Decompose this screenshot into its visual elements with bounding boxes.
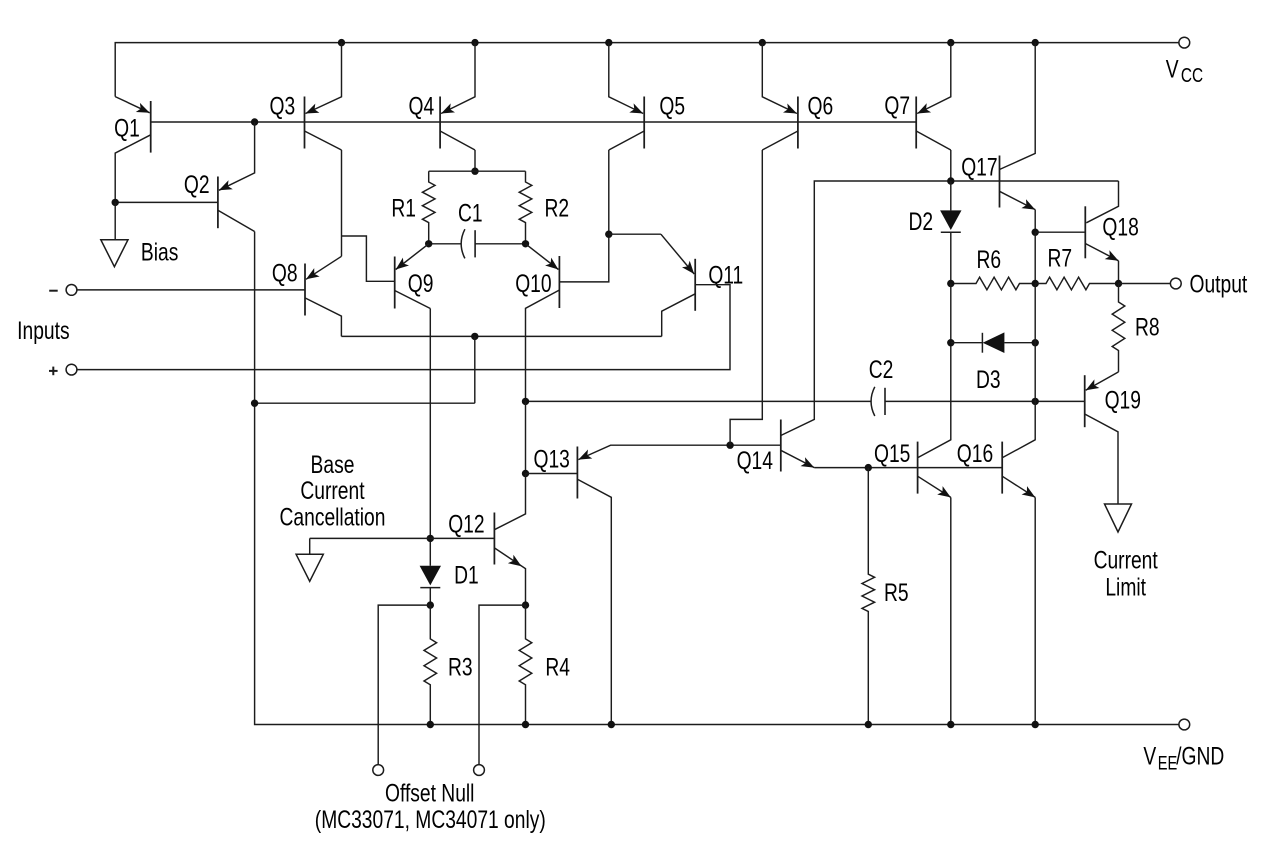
- label Q12: [448, 510, 484, 538]
- wire Q13 base: [526, 473, 578, 475]
- svg-text:/GND: /GND: [1176, 742, 1224, 770]
- wire Q17e to R6R7: [1034, 232, 1036, 283]
- wire Q10c to Q13 base: [525, 401, 527, 473]
- label D3: [976, 366, 1001, 394]
- node Q2 collector / cancellation bus: [251, 400, 258, 407]
- wire C1 left: [429, 243, 462, 245]
- node R6 R7 junction: [1032, 280, 1039, 287]
- node netB / Q16 collector: [1032, 398, 1039, 405]
- label Q11: [708, 261, 743, 289]
- svg-text:R4: R4: [545, 653, 570, 681]
- label R3: [448, 653, 473, 681]
- transistor Q16: [1002, 401, 1035, 497]
- wire noninverting input to Q11 base: [77, 285, 730, 370]
- label Output: [1189, 270, 1247, 298]
- svg-text:Q5: Q5: [659, 92, 685, 120]
- ground current limit: [1105, 504, 1132, 532]
- label Q3: [270, 92, 296, 120]
- label D1: [454, 561, 479, 589]
- label Q7: [884, 91, 910, 119]
- node C1 right / Q10 emitter: [522, 240, 529, 247]
- svg-text:Q9: Q9: [408, 270, 434, 298]
- node Q16 emitter / VEE: [1032, 721, 1039, 728]
- resistor R2: [519, 171, 532, 244]
- label Q15: [874, 440, 910, 468]
- svg-text:R5: R5: [884, 579, 909, 607]
- resistor R5: [862, 468, 875, 725]
- node R4 / VEE: [522, 721, 529, 728]
- svg-text:Base: Base: [311, 451, 355, 479]
- label R2: [544, 194, 569, 222]
- node VCC rail / Q5: [605, 39, 612, 46]
- capacitor C1: [461, 229, 475, 258]
- label Q8: [272, 259, 298, 287]
- node output: [1115, 280, 1122, 287]
- wire VCC rail: [115, 43, 1179, 97]
- node Q5 collector branch: [605, 231, 612, 238]
- label Q2: [184, 170, 210, 198]
- svg-text:Q7: Q7: [884, 91, 910, 119]
- node R5 / VEE: [865, 721, 872, 728]
- node Q1 collector / Q2 base / bias: [112, 199, 119, 206]
- svg-text:Current: Current: [1094, 546, 1159, 574]
- transistor Q3: [305, 43, 342, 150]
- svg-text:Q14: Q14: [737, 447, 773, 475]
- label C1: [458, 199, 483, 227]
- svg-text:Current: Current: [300, 477, 365, 505]
- wire Q17 base net: [951, 180, 1119, 182]
- svg-text:V: V: [1166, 55, 1179, 83]
- wire cancellation bus: [255, 402, 475, 404]
- transistor Q11: [661, 234, 695, 336]
- ground base current cancellation: [296, 538, 323, 581]
- resistor R4: [519, 605, 532, 724]
- svg-text:Q18: Q18: [1102, 213, 1138, 241]
- wire Q14 emitter bus: [814, 467, 1002, 469]
- wire Q18 base: [1035, 231, 1085, 233]
- node R4 top / Q12 emitter: [522, 601, 529, 608]
- node D1 anode / Q12 base: [427, 535, 434, 542]
- transistor Q17: [1000, 43, 1036, 233]
- resistor R8: [1112, 284, 1125, 372]
- svg-text:Q3: Q3: [270, 92, 296, 120]
- node VCC rail / Q7: [947, 39, 954, 46]
- label D2: [909, 208, 934, 236]
- svg-text:Q13: Q13: [534, 445, 570, 473]
- transistor Q18: [1085, 181, 1118, 284]
- node VCC rail / Q4: [471, 39, 478, 46]
- resistor R6: [951, 277, 1035, 290]
- resistor R3: [424, 605, 437, 724]
- transistor Q4: [440, 43, 475, 150]
- resistor R7: [1035, 277, 1118, 290]
- label Q1: [114, 114, 140, 142]
- wire Q9 collector to D1: [429, 309, 431, 566]
- svg-text:R7: R7: [1048, 244, 1073, 272]
- svg-text:Bias: Bias: [141, 238, 178, 266]
- node Q13 collector / VEE: [608, 721, 615, 728]
- svg-text:Limit: Limit: [1105, 573, 1146, 601]
- wire base bus: [151, 121, 917, 123]
- label minus: [49, 290, 58, 292]
- node D1 cathode / offset: [427, 601, 434, 608]
- terminal inverting input: [66, 285, 77, 296]
- node base bus / Q2 emitter: [251, 118, 258, 125]
- label Q19: [1105, 386, 1141, 414]
- wire Q16 emitter: [1034, 497, 1036, 724]
- svg-text:Q6: Q6: [807, 92, 833, 120]
- svg-text:Q4: Q4: [408, 92, 434, 120]
- label R6: [977, 246, 1002, 274]
- svg-text:Offset Null: Offset Null: [385, 779, 474, 807]
- transistor Q9: [395, 244, 431, 309]
- terminal output: [1170, 278, 1181, 289]
- wire offset null right: [479, 605, 526, 765]
- transistor Q14: [781, 181, 951, 472]
- wire inverting input: [77, 289, 305, 291]
- node Q13 base / Q12 collector: [522, 470, 529, 477]
- node D3 anode: [1032, 339, 1039, 346]
- label Q16: [957, 440, 993, 468]
- label Q17: [961, 153, 997, 181]
- transistor Q12: [494, 474, 525, 606]
- wire R6R7 to D3 left: [950, 284, 952, 343]
- svg-text:(MC33071, MC34071 only): (MC33071, MC34071 only): [315, 805, 546, 833]
- label R1: [391, 194, 416, 222]
- label Q9: [408, 270, 434, 298]
- diode D2: [940, 181, 961, 284]
- wire netB left: [526, 400, 872, 402]
- label Q18: [1102, 213, 1138, 241]
- node R3 / VEE: [427, 721, 434, 728]
- svg-text:Output: Output: [1189, 270, 1247, 298]
- svg-text:Inputs: Inputs: [17, 317, 69, 345]
- svg-text:Q16: Q16: [957, 440, 993, 468]
- label R4: [545, 653, 570, 681]
- label plus: [49, 367, 58, 376]
- transistor Q15: [918, 343, 951, 498]
- resistor R1: [422, 171, 435, 244]
- label Inputs: [17, 317, 69, 345]
- label Current: [1094, 546, 1159, 574]
- svg-text:R3: R3: [448, 653, 473, 681]
- wire Q2 base: [115, 201, 218, 203]
- terminal noninverting input: [66, 364, 77, 375]
- node VCC rail / Q6: [759, 39, 766, 46]
- label Q10: [515, 270, 551, 298]
- svg-text:Q17: Q17: [961, 153, 997, 181]
- label Q13: [534, 445, 570, 473]
- label Base: [311, 451, 355, 479]
- terminal VEE/GND: [1179, 719, 1190, 730]
- capacitor C2: [871, 387, 885, 416]
- label VEE/GND: [1143, 742, 1224, 774]
- label VCC: [1166, 55, 1203, 87]
- svg-text:D3: D3: [976, 366, 1001, 394]
- transistor Q5: [609, 43, 644, 150]
- transistor Q6: [762, 43, 798, 150]
- label R5: [884, 579, 909, 607]
- terminal offset null left: [373, 765, 384, 776]
- diode D3: [951, 332, 1035, 353]
- svg-text:Q1: Q1: [114, 114, 140, 142]
- wire Q15 emitter: [950, 497, 952, 724]
- node R6 left: [947, 280, 954, 287]
- wire collector bus Q8-Q11: [341, 335, 661, 337]
- svg-text:C1: C1: [458, 199, 483, 227]
- label Q4: [408, 92, 434, 120]
- wire cancellation ground: [310, 537, 431, 539]
- wire netB right: [885, 400, 1085, 402]
- svg-text:R2: R2: [544, 194, 569, 222]
- label C2: [869, 356, 894, 384]
- transistor Q7: [916, 43, 951, 181]
- wire Q12 base: [430, 537, 494, 539]
- node Q7 collector / Q17 base / D2: [947, 177, 954, 184]
- wire R1 R2 top tee: [429, 170, 526, 172]
- wire C1 right: [475, 243, 525, 245]
- svg-text:V: V: [1143, 742, 1156, 770]
- wire bias stub: [114, 202, 116, 239]
- wire bus link: [474, 336, 476, 403]
- node Q15 emitter / VEE: [947, 721, 954, 728]
- label MC33071 MC34071 only: [315, 805, 546, 833]
- node Q14 emitter / R5: [865, 464, 872, 471]
- svg-text:C2: C2: [869, 356, 894, 384]
- wire offset null left: [378, 605, 430, 765]
- node C1 left / Q9 emitter: [425, 240, 432, 247]
- wire Q5 collector: [559, 150, 608, 282]
- svg-text:Q15: Q15: [874, 440, 910, 468]
- svg-text:Cancellation: Cancellation: [280, 503, 386, 531]
- wire Q6 collector to Q14 base: [730, 150, 762, 445]
- transistor Q10: [526, 244, 560, 402]
- label Limit: [1105, 573, 1146, 601]
- transistor Q13: [577, 445, 780, 724]
- wire output: [1119, 283, 1171, 285]
- wire Q3 collector to Q8 emitter: [341, 150, 343, 256]
- label Current: [300, 477, 365, 505]
- diode D1: [420, 566, 441, 605]
- svg-text:CC: CC: [1181, 64, 1203, 86]
- wire VEE rail: [255, 232, 1179, 725]
- transistor Q1: [115, 97, 151, 203]
- svg-text:Q10: Q10: [515, 270, 551, 298]
- svg-text:R6: R6: [977, 246, 1002, 274]
- svg-text:R8: R8: [1135, 313, 1160, 341]
- terminal offset null right: [474, 765, 485, 776]
- svg-text:D2: D2: [909, 208, 934, 236]
- node Q10 collector / netB: [522, 398, 529, 405]
- node Q13 emitter / Q14 base: [726, 442, 733, 449]
- svg-text:Q2: Q2: [184, 170, 210, 198]
- svg-text:EE: EE: [1158, 753, 1178, 774]
- svg-text:Q12: Q12: [448, 510, 484, 538]
- terminal VCC: [1179, 37, 1190, 48]
- label R7: [1048, 244, 1073, 272]
- ground bias: [101, 240, 128, 267]
- svg-text:Q8: Q8: [272, 259, 298, 287]
- node VCC rail / Q17: [1032, 39, 1039, 46]
- wire Q4 collector: [474, 150, 476, 171]
- wire Q11 emitter feed: [609, 233, 661, 235]
- node VCC rail / Q3: [338, 39, 345, 46]
- transistor Q19: [1085, 372, 1119, 504]
- label R8: [1135, 313, 1160, 341]
- svg-text:Q19: Q19: [1105, 386, 1141, 414]
- label Q5: [659, 92, 685, 120]
- label Offset Null: [385, 779, 474, 807]
- label Bias: [141, 238, 178, 266]
- node D3 cathode: [947, 339, 954, 346]
- svg-text:D1: D1: [454, 561, 479, 589]
- wire Q9 base jog: [342, 236, 395, 281]
- node R1 R2 top: [471, 168, 478, 175]
- label Cancellation: [280, 503, 386, 531]
- transistor Q2: [218, 122, 255, 232]
- label Q14: [737, 447, 773, 475]
- node collector bus: [471, 333, 478, 340]
- svg-text:R1: R1: [391, 194, 416, 222]
- node Q17 emitter / Q18 base: [1032, 229, 1039, 236]
- wire 1035 column: [1034, 284, 1036, 402]
- label Q6: [807, 92, 833, 120]
- transistor Q8: [305, 256, 342, 336]
